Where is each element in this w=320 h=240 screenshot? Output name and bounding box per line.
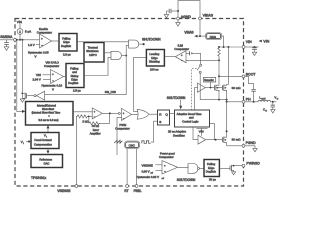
transistor Q1 slow-start discharge FET xyxy=(21,92,26,99)
svg-text:Deadtime: Deadtime xyxy=(173,133,185,137)
svg-text:Falling: Falling xyxy=(207,162,216,166)
wire thermal to AND2 xyxy=(104,52,111,54)
svg-text:Feed-Forward: Feed-Forward xyxy=(34,138,52,142)
svg-text:25 ns Adaptive: 25 ns Adaptive xyxy=(168,130,187,134)
op-amp U2 VIN UVLO comparator xyxy=(51,70,64,84)
svg-text:5 µA: 5 µA xyxy=(25,30,31,34)
gate AND2 (UVLO/thermal) xyxy=(111,51,121,59)
wire slow-start to error amp + xyxy=(73,111,92,113)
svg-text:PWRGD: PWRGD xyxy=(246,162,260,166)
wire adaptive logic to low-side driver xyxy=(193,127,198,140)
resistor R3 sense xyxy=(218,47,221,59)
wire SS node to slow-start block (external ss sense) xyxy=(17,40,22,112)
wire ramp to PWM comparator xyxy=(117,118,122,155)
svg-text:Compensation: Compensation xyxy=(34,142,52,146)
svg-text:2.84 V: 2.84 V xyxy=(33,78,41,82)
wire AND2 out to AND1 input xyxy=(126,46,128,56)
pin VBIAS xyxy=(199,17,202,20)
svg-text:VIN: VIN xyxy=(263,40,269,44)
gate AND1 (shutdown) xyxy=(129,40,139,48)
pin AGND xyxy=(177,17,180,20)
svg-text:VBIAS: VBIAS xyxy=(203,14,214,18)
svg-text:Comparator: Comparator xyxy=(37,31,52,35)
svg-text:2 kΩ: 2 kΩ xyxy=(82,120,88,124)
wire SS node down to Q1 xyxy=(21,40,23,99)
waveform ramp symbol xyxy=(114,140,122,143)
inductor L_OUT xyxy=(258,100,270,102)
wire SS_DIS down to inverter xyxy=(45,56,127,95)
label VIN (low driver supply) xyxy=(196,127,207,129)
svg-text:VBIAS: VBIAS xyxy=(184,31,193,35)
svg-text:145°C: 145°C xyxy=(89,53,97,57)
svg-text:PWM: PWM xyxy=(119,123,126,127)
svg-text:Comparator: Comparator xyxy=(44,64,59,68)
svg-text:Slow-Start: Slow-Start xyxy=(42,107,54,111)
op-amp U9 power good comparator xyxy=(162,161,178,174)
svg-text:−: − xyxy=(123,116,125,120)
block REG (VBIAS regulator) xyxy=(206,33,222,40)
current source I1 5uA xyxy=(17,24,23,40)
block internal/external slow-start xyxy=(26,102,74,126)
wire AND3 to deglitch xyxy=(200,167,205,169)
wire low FET source to PGND xyxy=(227,145,243,147)
wire PH external xyxy=(245,101,258,103)
inverter U3 (slow start discharge) xyxy=(36,91,44,100)
wire PWM comp to OR gate xyxy=(132,113,138,115)
svg-text:and: and xyxy=(189,116,194,120)
wire PWRGD FET drain to pin xyxy=(234,165,243,167)
svg-text:35 µs: 35 µs xyxy=(209,178,216,182)
svg-text:Deglitch: Deglitch xyxy=(68,81,79,85)
pin VSENSE xyxy=(75,185,78,188)
wire UVLO comp to deglitch2 xyxy=(64,76,67,78)
wire sample bus xyxy=(200,99,226,101)
block sensefet xyxy=(204,77,216,82)
wire FSEL pin riser xyxy=(136,149,138,185)
svg-text:REG: REG xyxy=(210,35,217,39)
svg-text:VIN: VIN xyxy=(17,20,22,24)
op-amp U7 high-side gate driver xyxy=(198,83,206,92)
op-amp U1 enable comparator xyxy=(40,34,52,48)
node SS junction dots xyxy=(16,39,24,41)
block thermal shutdown xyxy=(84,43,104,63)
svg-text:VIN: VIN xyxy=(36,73,41,77)
transistor Q2 sense FET xyxy=(215,84,220,91)
transistor Q4 low-side FET 30 mOhm xyxy=(222,134,226,146)
wire sense resistor to boot node xyxy=(218,60,220,84)
pin FSEL xyxy=(135,185,138,188)
wire driver to low FET gate xyxy=(206,139,223,141)
svg-text:−: − xyxy=(52,79,54,83)
pin SS/ENA xyxy=(14,38,17,41)
svg-text:VSENSE: VSENSE xyxy=(142,163,153,167)
wire feed-forward to slow-start (arrow up) xyxy=(47,128,49,133)
svg-text:−: − xyxy=(41,43,43,47)
svg-text:OUT: OUT xyxy=(261,98,266,100)
svg-text:Edge: Edge xyxy=(208,166,215,170)
pin PH xyxy=(242,100,245,103)
svg-text:Comparator: Comparator xyxy=(174,47,189,51)
wire external AGND-VBIAS loop xyxy=(178,1,200,18)
pin VIN xyxy=(242,46,245,49)
svg-text:PGND: PGND xyxy=(246,141,257,145)
wire SS/ENA node bus xyxy=(16,39,39,41)
svg-text:1.8 V: 1.8 V xyxy=(28,43,35,47)
pin BOOT xyxy=(242,75,245,78)
wire adaptive logic to high-side driver input xyxy=(195,88,198,110)
switch S1 sample switch xyxy=(197,53,202,99)
wire PH bus xyxy=(227,101,243,103)
wire dashed switch control from adaptive logic xyxy=(192,69,197,110)
svg-text:30 mΩ: 30 mΩ xyxy=(232,86,242,90)
wire main FET drain xyxy=(227,47,229,85)
svg-text:VIN: VIN xyxy=(199,129,204,133)
waveform clock symbol xyxy=(142,141,151,144)
wire sensefet box stub xyxy=(210,82,212,88)
svg-text:SS/ENA: SS/ENA xyxy=(0,35,13,39)
svg-text:3.3 ms to 6.6 ms): 3.3 ms to 6.6 ms) xyxy=(38,118,58,122)
svg-text:VSENSE: VSENSE xyxy=(57,189,70,193)
block reference DAC xyxy=(31,155,63,168)
svg-text:FSEL: FSEL xyxy=(134,189,142,193)
svg-text:PH: PH xyxy=(246,97,251,101)
wire VSENSE riser xyxy=(75,116,78,184)
svg-text:Blanking: Blanking xyxy=(149,59,160,63)
svg-text:Internal/External: Internal/External xyxy=(37,104,56,108)
svg-text:TPS5461x: TPS5461x xyxy=(31,176,47,180)
block leading edge blanking xyxy=(146,50,164,67)
capacitor C_O output xyxy=(263,102,275,113)
svg-text:S: S xyxy=(159,120,161,124)
svg-text:−: − xyxy=(94,115,96,119)
svg-text:Comparator: Comparator xyxy=(115,126,130,130)
svg-text:30 mΩ: 30 mΩ xyxy=(232,137,242,141)
svg-text:Error: Error xyxy=(93,128,99,132)
IC boundary dashed border xyxy=(15,19,244,187)
block adaptive dead-time control logic xyxy=(175,110,210,127)
label VIN external supply xyxy=(259,40,262,43)
svg-text:SS_DIS: SS_DIS xyxy=(105,90,116,94)
svg-text:Amplifier: Amplifier xyxy=(90,131,101,135)
svg-text:Reference: Reference xyxy=(39,157,52,161)
wire VIN external xyxy=(245,46,259,48)
svg-text:(Internal Slow-Start Time: (Internal Slow-Start Time xyxy=(32,111,61,115)
gate AND3 xyxy=(188,164,198,174)
wire deglitch to PWRGD FET gate xyxy=(219,167,230,169)
wire error amp output xyxy=(102,112,118,114)
svg-text:SHUTDOWN: SHUTDOWN xyxy=(177,178,196,182)
ground PGND external xyxy=(245,146,255,149)
wire latch Q to adaptive logic xyxy=(170,113,175,115)
svg-text:DAC: DAC xyxy=(44,162,50,166)
wire gate sense to adaptive logic xyxy=(210,124,215,140)
transistor Q3 main high-side FET 30 mOhm xyxy=(222,84,228,91)
wire RT pin riser xyxy=(126,149,128,185)
svg-text:Deglitch: Deglitch xyxy=(206,169,216,173)
wire VIN rail xyxy=(219,46,242,48)
op-amp U5 PWM comparator xyxy=(122,108,132,120)
wire ILIM minus to sense resistor xyxy=(186,59,219,61)
wire blanking to OR gate xyxy=(134,57,147,111)
svg-text:Hysteresis: 0.05: Hysteresis: 0.05 xyxy=(28,51,49,55)
svg-text:OSC: OSC xyxy=(129,144,135,148)
svg-text:SHUTDOWN: SHUTDOWN xyxy=(142,38,161,42)
resistor R2 40k feedback xyxy=(89,114,110,125)
wire SS/ENA external lead xyxy=(0,39,15,41)
svg-text:AGND: AGND xyxy=(181,15,192,19)
svg-text:Power good: Power good xyxy=(160,151,175,155)
svg-text:100 ns: 100 ns xyxy=(150,67,159,71)
ground below Q5 xyxy=(232,172,236,175)
pin RT xyxy=(126,185,129,188)
wire sense FET source to sample node xyxy=(218,90,220,99)
svg-text:Comparator: Comparator xyxy=(159,155,174,159)
pin PGND xyxy=(242,144,245,147)
wire pg comp to AND3 xyxy=(178,166,188,167)
svg-text:−: − xyxy=(181,59,183,63)
svg-text:Adaptive Dead-Time: Adaptive Dead-Time xyxy=(177,112,202,116)
wire REG to VIN rail xyxy=(222,36,224,47)
svg-text:Sensefet: Sensefet xyxy=(204,79,214,82)
svg-text:SHUTDOWN: SHUTDOWN xyxy=(167,96,186,100)
svg-text:ref: ref xyxy=(162,178,165,180)
node SHUTDOWN dot xyxy=(143,43,145,45)
wire main FET source to PH xyxy=(226,90,228,101)
svg-text:V: V xyxy=(52,87,54,91)
node comp connection circle xyxy=(118,112,120,114)
svg-text:VIN: VIN xyxy=(246,40,252,44)
capacitor C_vbias external xyxy=(164,9,178,18)
transistor Q5 PWRGD pull-down xyxy=(230,165,235,172)
block feed-forward compensation xyxy=(31,133,59,149)
capacitor C_boot external xyxy=(245,76,256,102)
svg-text:V: V xyxy=(35,54,37,58)
wire driver gate bus xyxy=(205,87,214,89)
wire deglitch to AND1 xyxy=(77,41,129,43)
node SS_DIS junction xyxy=(125,55,127,57)
wire ILIM out to blanking xyxy=(164,56,175,58)
block Falling and Rising Edge Deglitch xyxy=(66,64,84,88)
svg-text:−: − xyxy=(164,169,166,173)
svg-text:RT: RT xyxy=(124,189,128,193)
svg-text:Control Logic: Control Logic xyxy=(182,119,199,123)
svg-text:Deglitch: Deglitch xyxy=(61,44,72,48)
block SR latch xyxy=(158,110,170,125)
op-amp U8 low-side gate driver xyxy=(198,135,206,144)
op-amp U4 error amplifier xyxy=(92,108,102,119)
gate OR1 (latch reset) xyxy=(137,109,149,119)
wire enable comparator to deglitch xyxy=(52,40,60,42)
capacitor C_ss external slow-start cap xyxy=(4,40,9,51)
svg-text:Hysteresis: 0.02 V: Hysteresis: 0.02 V xyxy=(136,175,159,179)
block falling edge deglitch (pwrgd) xyxy=(204,160,219,177)
svg-text:2.5 µs: 2.5 µs xyxy=(73,89,81,93)
svg-text:BOOT: BOOT xyxy=(246,72,256,76)
wire VBIAS pin to REG xyxy=(200,20,206,36)
svg-text:2.9 µs: 2.9 µs xyxy=(63,52,71,56)
wire clock to latch S input xyxy=(151,121,158,142)
resistor R1 2k xyxy=(77,115,87,118)
wire BOOT internal xyxy=(219,75,242,77)
ground below Q1 xyxy=(20,99,24,102)
node error amp minus input xyxy=(88,116,90,118)
wire deglitch2 to AND2 xyxy=(84,57,111,75)
wire shutdown into adaptive box (arrow) xyxy=(180,100,182,107)
block OSC xyxy=(125,141,140,149)
wire feed-forward to DAC (arrow down) xyxy=(47,149,49,152)
block Falling Edge Deglitch (enable) xyxy=(59,34,77,52)
svg-text:ILIM: ILIM xyxy=(178,44,184,48)
pin PWRGD xyxy=(242,164,245,167)
svg-text:0.90 V: 0.90 V xyxy=(142,170,150,174)
op-amp U6 ILIM comparator (points left) xyxy=(175,51,186,63)
battery offset symbol xyxy=(186,51,201,55)
capacitor C_in external xyxy=(252,47,257,56)
wire PH to low-side FET xyxy=(226,102,228,134)
ground internal AGND xyxy=(177,20,179,23)
